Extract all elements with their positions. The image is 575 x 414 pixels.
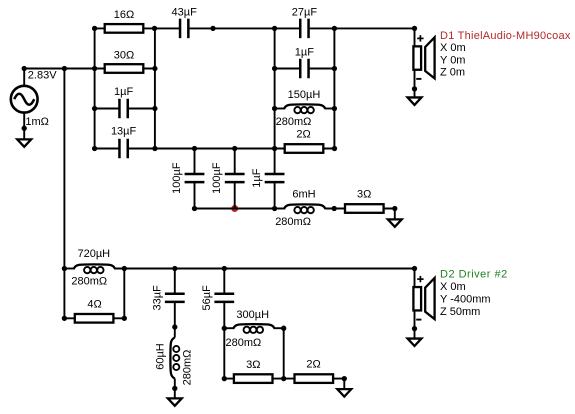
svg-text:1mΩ: 1mΩ — [25, 116, 49, 128]
svg-text:33µF: 33µF — [151, 285, 163, 311]
svg-text:3Ω: 3Ω — [246, 359, 260, 371]
svg-text:2Ω: 2Ω — [306, 359, 320, 371]
svg-text:D1 ThielAudio-MH90coax: D1 ThielAudio-MH90coax — [440, 30, 571, 42]
svg-text:4Ω: 4Ω — [87, 299, 101, 311]
svg-text:150µH: 150µH — [288, 89, 321, 101]
svg-text:Y 0m: Y 0m — [440, 54, 465, 66]
svg-text:280mΩ: 280mΩ — [182, 350, 194, 386]
svg-text:30Ω: 30Ω — [114, 50, 134, 62]
svg-text:Z 50mm: Z 50mm — [440, 306, 480, 318]
svg-text:2Ω: 2Ω — [296, 129, 310, 141]
svg-text:3Ω: 3Ω — [357, 188, 371, 200]
svg-text:2.83V: 2.83V — [28, 70, 57, 82]
svg-text:280mΩ: 280mΩ — [276, 116, 312, 128]
svg-text:1µF: 1µF — [295, 46, 314, 58]
svg-text:43µF: 43µF — [172, 6, 198, 18]
svg-text:100µF: 100µF — [171, 162, 183, 194]
svg-text:Y -400mm: Y -400mm — [440, 294, 491, 306]
svg-text:D2 Driver #2: D2 Driver #2 — [440, 269, 508, 281]
svg-text:Z 0m: Z 0m — [440, 66, 465, 78]
svg-text:X 0m: X 0m — [440, 281, 466, 293]
svg-text:27µF: 27µF — [292, 6, 318, 18]
svg-text:1µF: 1µF — [251, 168, 263, 187]
svg-text:100µF: 100µF — [211, 162, 223, 194]
svg-text:280mΩ: 280mΩ — [275, 216, 311, 228]
svg-text:1µF: 1µF — [114, 86, 133, 98]
svg-text:16Ω: 16Ω — [114, 9, 134, 21]
svg-text:6mH: 6mH — [292, 188, 315, 200]
svg-text:300µH: 300µH — [236, 309, 269, 321]
svg-text:280mΩ: 280mΩ — [226, 337, 262, 349]
svg-text:13µF: 13µF — [111, 125, 137, 137]
svg-text:56µF: 56µF — [201, 285, 213, 311]
svg-text:720µH: 720µH — [77, 248, 110, 260]
svg-text:280mΩ: 280mΩ — [71, 275, 107, 287]
svg-text:60µH: 60µH — [155, 343, 167, 370]
svg-text:X 0m: X 0m — [440, 42, 466, 54]
